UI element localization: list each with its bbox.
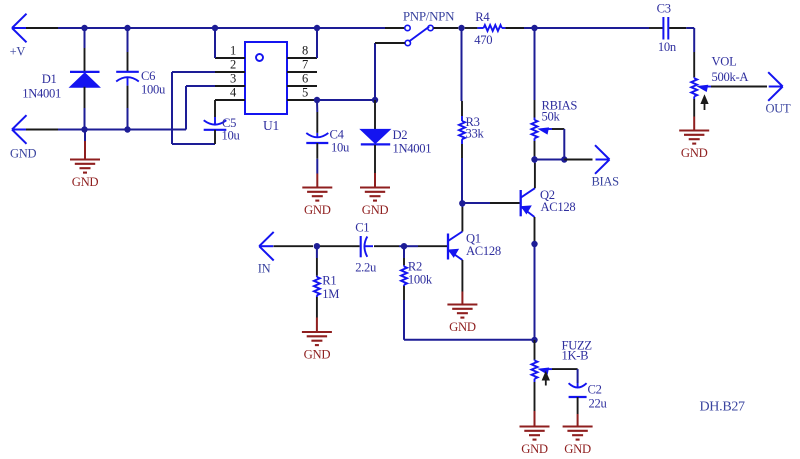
svg-text:10u: 10u	[331, 141, 350, 155]
svg-text:GND: GND	[362, 203, 389, 217]
svg-text:4: 4	[230, 86, 237, 100]
svg-text:U1: U1	[263, 118, 279, 133]
svg-text:GND: GND	[564, 442, 591, 456]
svg-text:GND: GND	[449, 320, 476, 334]
svg-text:1N4001: 1N4001	[393, 142, 432, 156]
svg-text:+V: +V	[10, 45, 26, 59]
svg-text:IN: IN	[258, 262, 271, 276]
svg-text:6: 6	[302, 72, 308, 86]
svg-text:AC128: AC128	[541, 200, 576, 214]
svg-text:D2: D2	[393, 128, 408, 142]
svg-text:470: 470	[474, 33, 492, 47]
svg-text:10u: 10u	[222, 129, 241, 143]
svg-text:GND: GND	[521, 442, 548, 456]
svg-text:C6: C6	[141, 69, 155, 83]
svg-text:GND: GND	[72, 175, 99, 189]
svg-text:C1: C1	[355, 220, 369, 234]
svg-text:GND: GND	[10, 146, 36, 160]
svg-text:GND: GND	[304, 203, 331, 217]
svg-text:50k: 50k	[542, 110, 561, 124]
svg-text:10n: 10n	[658, 40, 677, 54]
svg-text:100k: 100k	[408, 272, 433, 286]
svg-text:22u: 22u	[589, 397, 608, 411]
svg-text:500k-A: 500k-A	[712, 70, 749, 84]
svg-text:5: 5	[302, 86, 308, 100]
svg-text:GND: GND	[681, 146, 708, 160]
svg-text:1M: 1M	[322, 287, 339, 301]
svg-text:100u: 100u	[141, 83, 166, 97]
svg-text:GND: GND	[304, 348, 331, 362]
svg-text:2: 2	[230, 58, 236, 72]
svg-text:DH.B27: DH.B27	[700, 400, 746, 415]
svg-text:OUT: OUT	[766, 101, 791, 115]
svg-text:R4: R4	[475, 10, 490, 24]
svg-text:1: 1	[230, 44, 236, 58]
svg-text:C2: C2	[588, 383, 602, 397]
svg-text:C4: C4	[330, 128, 345, 142]
svg-text:AC128: AC128	[466, 244, 501, 258]
svg-text:3: 3	[230, 72, 236, 86]
svg-text:2.2u: 2.2u	[355, 260, 377, 274]
svg-text:D1: D1	[42, 72, 57, 86]
svg-text:1K-B: 1K-B	[562, 349, 589, 363]
svg-text:7: 7	[302, 58, 308, 72]
svg-text:C3: C3	[657, 2, 671, 16]
svg-text:33k: 33k	[466, 127, 485, 141]
svg-text:1N4001: 1N4001	[22, 87, 61, 101]
svg-text:R2: R2	[408, 259, 422, 273]
svg-text:BIAS: BIAS	[592, 175, 620, 189]
svg-text:R1: R1	[322, 274, 336, 288]
svg-text:8: 8	[302, 44, 308, 58]
svg-text:PNP/NPN: PNP/NPN	[403, 8, 455, 23]
svg-text:VOL: VOL	[712, 55, 737, 69]
